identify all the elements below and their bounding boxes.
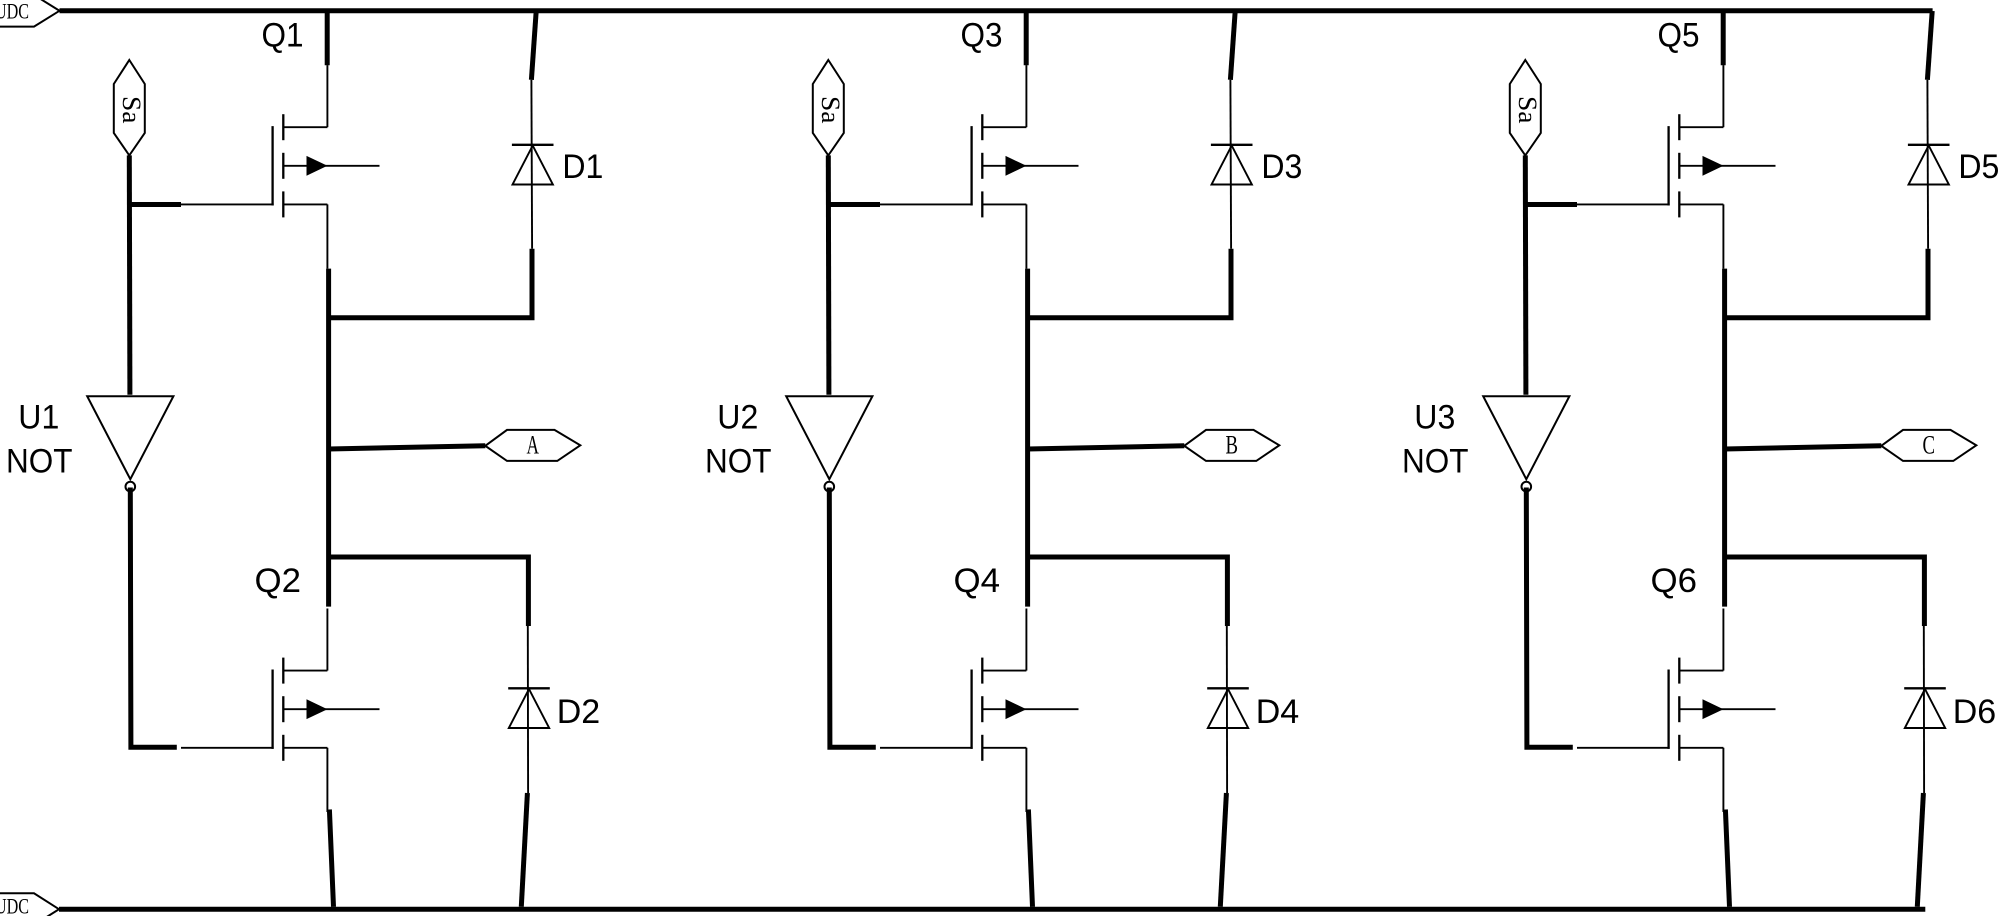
diode D1: [512, 80, 554, 249]
transistor Q1: [181, 65, 380, 269]
port UDC (top, positive DC input): [0, 0, 60, 27]
wire Q2 source to bottom rail: [329, 810, 333, 907]
NOT gate U2: [786, 396, 872, 491]
wire junction stub to Q1 gate: [129, 202, 181, 207]
svg-text:Q1: Q1: [262, 17, 304, 55]
svg-text:D6: D6: [1953, 693, 1997, 731]
svg-text:A: A: [527, 431, 540, 460]
port C (phase output node): [1881, 430, 1976, 461]
diode D2: [508, 622, 550, 793]
wire junction stub to Q5 gate: [1525, 202, 1577, 207]
NOT gate U1: [87, 396, 173, 491]
svg-text:UDC: UDC: [0, 0, 29, 23]
port A (phase output node): [485, 430, 580, 461]
svg-text:Sa: Sa: [1513, 96, 1542, 124]
wire Sa port to NOT gate input and Q3 gate junction: [826, 155, 832, 394]
svg-text:Q5: Q5: [1658, 17, 1700, 55]
wire Sa port to NOT gate input and Q5 gate junction: [1523, 155, 1529, 394]
wire branch output node to D2 cathode: [329, 557, 529, 626]
wire top rail to D3 cathode: [1230, 11, 1235, 80]
wire Q6 source to bottom rail: [1725, 810, 1729, 907]
wire output node column (Q5 source / Q6 drain / node C): [1722, 269, 1727, 607]
svg-text:UDC: UDC: [0, 894, 29, 916]
svg-text:Q3: Q3: [961, 17, 1003, 55]
diode D4: [1207, 622, 1249, 793]
wire NOT output to Q6 gate: [1526, 488, 1573, 748]
wire output node to port C: [1725, 446, 1882, 449]
wire branch output node to D5 anode: [1725, 249, 1928, 318]
svg-text:Q4: Q4: [954, 562, 1001, 600]
svg-text:D1: D1: [562, 148, 603, 186]
port Sa (phase 3 gate input): [1510, 60, 1542, 155]
wire bottom rail (-UDC bus): [59, 907, 1925, 912]
wire output node to port A: [329, 446, 486, 449]
wire top rail to Q1 drain: [325, 11, 330, 65]
wire Q4 source to bottom rail: [1028, 810, 1032, 907]
transistor Q6: [1577, 609, 1776, 813]
transistor Q5: [1577, 65, 1776, 269]
svg-text:D5: D5: [1958, 148, 1999, 186]
wire branch output node to D4 cathode: [1028, 557, 1228, 626]
wire branch output node to D1 anode: [329, 249, 532, 318]
svg-text:Q6: Q6: [1651, 562, 1698, 600]
wire NOT output to Q2 gate: [130, 488, 177, 748]
svg-text:Sa: Sa: [816, 96, 845, 124]
wire top rail to Q5 drain: [1721, 11, 1726, 65]
diode D3: [1211, 80, 1253, 249]
wire D4 anode to bottom rail: [1220, 793, 1226, 907]
svg-text:Sa: Sa: [117, 96, 146, 124]
port B (phase output node): [1184, 430, 1279, 461]
svg-text:NOT: NOT: [6, 442, 73, 480]
transistor Q3: [880, 65, 1079, 269]
wire top rail (+UDC bus): [60, 8, 1933, 13]
wire branch output node to D3 anode: [1028, 249, 1231, 318]
wire Sa port to NOT gate input and Q1 gate junction: [127, 155, 133, 394]
wire top rail to D5 cathode: [1927, 11, 1932, 80]
wire output node to port B: [1028, 446, 1185, 449]
port Sa (phase 2 gate input): [813, 60, 845, 155]
diode D5: [1908, 80, 1950, 249]
wire top rail to Q3 drain: [1024, 11, 1029, 65]
wire junction stub to Q3 gate: [828, 202, 880, 207]
svg-text:D4: D4: [1256, 693, 1300, 731]
diode D6: [1904, 622, 1946, 793]
wire top rail to D1 cathode: [531, 11, 536, 80]
wire NOT output to Q4 gate: [829, 488, 876, 748]
svg-text:D3: D3: [1261, 148, 1302, 186]
wire output node column (Q3 source / Q4 drain / node B): [1025, 269, 1030, 607]
svg-text:U3: U3: [1414, 398, 1455, 436]
svg-text:NOT: NOT: [1402, 442, 1469, 480]
svg-text:D2: D2: [557, 693, 601, 731]
wire branch output node to D6 cathode: [1725, 557, 1925, 626]
port UDC (bottom, negative DC input): [0, 893, 59, 916]
svg-text:U2: U2: [717, 398, 758, 436]
svg-text:B: B: [1226, 431, 1239, 460]
svg-text:C: C: [1923, 431, 1936, 460]
wire D2 anode to bottom rail: [521, 793, 527, 907]
svg-text:NOT: NOT: [705, 442, 772, 480]
svg-text:U1: U1: [18, 398, 59, 436]
port Sa (phase 1 gate input): [114, 60, 146, 155]
NOT gate U3: [1483, 396, 1569, 491]
wire output node column (Q1 source / Q2 drain / node A): [326, 269, 331, 607]
transistor Q2: [181, 609, 380, 813]
transistor Q4: [880, 609, 1079, 813]
wire D6 anode to bottom rail: [1917, 793, 1923, 907]
svg-text:Q2: Q2: [255, 562, 302, 600]
